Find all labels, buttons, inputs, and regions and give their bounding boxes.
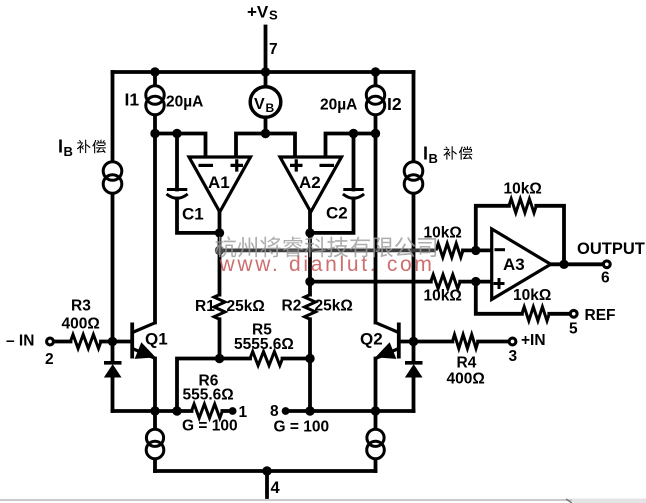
label pin 1 bbox=[239, 404, 248, 421]
wire right tail source leads bbox=[374, 411, 378, 471]
label R4 bbox=[457, 355, 477, 372]
label 10k REF bbox=[513, 287, 551, 304]
node R2 bottom R5 right bbox=[305, 354, 314, 363]
wire R2 bottom continues to bottom row bbox=[308, 319, 312, 411]
svg-text:A3: A3 bbox=[503, 255, 525, 274]
terminal REF pin 5 bbox=[570, 310, 577, 317]
label C1 bbox=[182, 205, 204, 224]
svg-text:REF: REF bbox=[585, 307, 616, 324]
wire C1 bottom lead to A1 output bbox=[177, 199, 220, 233]
wire Q2 emitter drop bbox=[374, 359, 378, 412]
svg-text:B: B bbox=[266, 101, 275, 115]
label 555.6 bbox=[183, 387, 234, 404]
voltage source VB bbox=[250, 87, 281, 118]
svg-text:555.6Ω: 555.6Ω bbox=[183, 387, 234, 404]
svg-text:1: 1 bbox=[239, 404, 248, 421]
wire A3 minus input right part bbox=[463, 248, 492, 252]
node VB bottom bbox=[261, 129, 270, 138]
node R1 bottom R5 left bbox=[215, 354, 224, 363]
terminal +IN pin 3 bbox=[509, 338, 516, 345]
label pin 6 bbox=[601, 270, 610, 287]
wire A3 feedback loop bbox=[476, 206, 564, 264]
current source IB compensation right bbox=[404, 162, 423, 194]
label R6 bbox=[199, 373, 219, 390]
wire Q2 collector riser bbox=[374, 134, 378, 323]
svg-text:Q1: Q1 bbox=[145, 330, 168, 349]
wire C1 top lead bbox=[175, 134, 179, 190]
wire A1 output drop bbox=[218, 212, 222, 295]
wire bottom row left segment bbox=[113, 409, 192, 413]
resistor 10k to A3 plus input bbox=[431, 275, 460, 289]
wire REF resistor to terminal bbox=[549, 312, 569, 316]
wire node row I2 to A2 minus corner bbox=[326, 134, 376, 158]
svg-text:V: V bbox=[254, 96, 265, 113]
label REF bbox=[585, 307, 616, 324]
node A3 minus input bbox=[471, 246, 480, 255]
svg-text:10kΩ: 10kΩ bbox=[504, 181, 542, 198]
wire VB node to A1 plus input bbox=[236, 134, 266, 158]
label 10k feedback bbox=[504, 181, 542, 198]
svg-text:25kΩ: 25kΩ bbox=[227, 298, 265, 315]
node C1 top bbox=[172, 129, 181, 138]
label 10k upper-left bbox=[424, 225, 462, 242]
node A3 plus input bbox=[471, 277, 480, 286]
svg-text:Q2: Q2 bbox=[360, 330, 383, 349]
label 20uA right bbox=[320, 97, 357, 114]
op-amp A2 bbox=[280, 157, 342, 212]
label R1 bbox=[195, 298, 215, 315]
svg-text:OUTPUT: OUTPUT bbox=[577, 240, 645, 258]
svg-text:7: 7 bbox=[269, 41, 278, 58]
node RG branch bottom bbox=[172, 406, 181, 415]
node A1 output to A3 wire (gray under watermark) bbox=[215, 246, 224, 255]
wire VB node to A2 plus input bbox=[266, 134, 296, 158]
label IB compensation left bbox=[58, 137, 106, 160]
label R5 bbox=[252, 322, 272, 339]
svg-text:A1: A1 bbox=[208, 173, 230, 192]
svg-text:8: 8 bbox=[270, 403, 279, 420]
wire bottom rail bbox=[155, 469, 376, 473]
label 10k lower-left bbox=[424, 288, 462, 305]
svg-text:20µA: 20µA bbox=[320, 97, 357, 114]
current source I1 20uA bbox=[146, 86, 164, 115]
label I2 bbox=[387, 94, 402, 114]
current source IB compensation left bbox=[103, 162, 122, 194]
label G=100 left bbox=[182, 418, 238, 435]
node C2 bottom at A2 output bbox=[305, 228, 314, 237]
svg-text:4: 4 bbox=[271, 479, 281, 497]
node Q2 emitter bottom bbox=[371, 406, 380, 415]
wire VB to node row bbox=[264, 118, 268, 134]
resistor R2 25k bbox=[305, 295, 316, 320]
wire right rail upper (to IB source) bbox=[412, 72, 416, 162]
node pin4 tap bbox=[262, 466, 271, 475]
capacitor C1 bbox=[167, 190, 188, 199]
svg-text:3: 3 bbox=[509, 348, 518, 365]
resistor 10k to A3 minus input bbox=[436, 243, 463, 257]
wire I1 drop from rail bbox=[153, 72, 157, 87]
diode right (Q2 base clamp) bbox=[405, 363, 423, 377]
svg-text:I: I bbox=[423, 144, 428, 164]
op-amp A1 bbox=[189, 157, 251, 212]
label C2 bbox=[326, 204, 348, 223]
transistor Q1 bbox=[132, 323, 155, 359]
current source I2 20uA bbox=[366, 86, 384, 115]
svg-text:G = 100: G = 100 bbox=[274, 419, 330, 436]
resistor 10k feedback A3 bbox=[509, 199, 536, 213]
svg-text:R2: R2 bbox=[282, 298, 302, 315]
wire left rail upper (to IB source) bbox=[111, 72, 115, 162]
svg-text:I2: I2 bbox=[387, 94, 402, 114]
label Q1 bbox=[145, 330, 168, 349]
svg-text:2: 2 bbox=[45, 351, 54, 368]
label 25k R2 bbox=[315, 298, 353, 315]
wire top supply rail bbox=[113, 70, 414, 74]
node C2 top bbox=[349, 129, 358, 138]
svg-text:5: 5 bbox=[569, 321, 578, 338]
label 5555.6 bbox=[234, 336, 294, 353]
diode left (Q1 base clamp) bbox=[104, 363, 122, 377]
svg-text:400Ω: 400Ω bbox=[447, 371, 485, 388]
label pin 7 bbox=[269, 41, 278, 58]
wire right rail lower (IB source to Q2 base node) bbox=[412, 193, 416, 342]
current source tail left bbox=[146, 429, 164, 459]
label G=100 right bbox=[274, 419, 330, 436]
svg-text:10kΩ: 10kΩ bbox=[424, 288, 462, 305]
svg-text:S: S bbox=[269, 8, 278, 23]
wire Q1 emitter drop bbox=[153, 359, 157, 412]
node top rail VB bbox=[261, 67, 270, 76]
wire left tail source leads bbox=[153, 411, 157, 471]
svg-text:C1: C1 bbox=[182, 205, 204, 224]
svg-text:B: B bbox=[429, 151, 438, 166]
node A2 output to A3 plus bbox=[305, 277, 314, 286]
svg-text:6: 6 bbox=[601, 270, 610, 287]
wire C2 top lead bbox=[352, 134, 356, 190]
resistor R1 25k bbox=[214, 295, 225, 320]
node A3 output bbox=[559, 260, 568, 269]
wire left diode leads bbox=[111, 342, 115, 412]
wire Q1 collector riser bbox=[153, 134, 157, 323]
label -IN bbox=[6, 333, 34, 350]
svg-text:A2: A2 bbox=[299, 173, 321, 192]
label Q2 bbox=[360, 330, 383, 349]
wire pin4 stub bbox=[265, 471, 269, 497]
svg-text:C2: C2 bbox=[326, 204, 348, 223]
node C1 bottom at A1 output bbox=[215, 228, 224, 237]
node R2 bottom row bbox=[305, 406, 314, 415]
label IB compensation right bbox=[423, 144, 472, 167]
wire right diode leads bbox=[412, 342, 416, 412]
svg-text:B: B bbox=[64, 144, 73, 159]
pin 1 terminal dot bbox=[229, 407, 237, 415]
svg-text:10kΩ: 10kΩ bbox=[513, 287, 551, 304]
label 400 R4 bbox=[447, 371, 485, 388]
transistor Q2 bbox=[376, 323, 399, 359]
wire R5 leads bbox=[220, 357, 311, 361]
wire A1 output to A3 minus input (under watermark, appears dark gray) bbox=[220, 248, 437, 252]
bottom page border line bbox=[0, 499, 646, 503]
svg-text:+IN: +IN bbox=[521, 332, 546, 349]
wire A2 output to A3 plus input bbox=[310, 280, 492, 284]
watermark company name bbox=[215, 236, 436, 257]
label OUTPUT bbox=[577, 240, 645, 258]
svg-text:I: I bbox=[58, 137, 63, 157]
terminal -IN pin 2 bbox=[47, 338, 54, 345]
wire -IN terminal to R3 bbox=[55, 340, 71, 344]
svg-text:– IN: – IN bbox=[6, 333, 34, 350]
node top rail I2 bbox=[371, 67, 380, 76]
label R3 bbox=[71, 298, 91, 315]
svg-text:+V: +V bbox=[247, 3, 269, 22]
node Q1 emitter bottom bbox=[150, 406, 159, 415]
wire pin8 to bottom row right segment bbox=[286, 409, 414, 413]
wire left rail lower (IB source to Q1 base node) bbox=[111, 193, 115, 342]
capacitor C2 bbox=[343, 190, 364, 199]
wire R5 left node to RG branch bbox=[177, 359, 220, 412]
wire Q2 base to rail node and R4 bbox=[401, 340, 509, 344]
svg-text:I1: I1 bbox=[125, 90, 140, 110]
wire R3 to base node bbox=[101, 340, 113, 344]
label pin 3 bbox=[509, 348, 518, 365]
svg-text:G = 100: G = 100 bbox=[182, 418, 238, 435]
wire A3 plus node to REF resistor bbox=[476, 282, 522, 314]
label pin 4 bbox=[271, 479, 281, 497]
wire R6 to pin1 stub bbox=[222, 409, 231, 413]
wire A3 output to terminal bbox=[551, 262, 602, 266]
resistor R5 5555.6ohm bbox=[250, 352, 283, 366]
current source tail right bbox=[367, 429, 385, 459]
wire R1 bottom to R5 left node bbox=[218, 319, 222, 358]
resistor R6 555.6ohm bbox=[192, 404, 223, 418]
label 400 R3 bbox=[62, 316, 100, 333]
label 20uA left bbox=[166, 94, 203, 111]
wire Q1 base from rail node bbox=[113, 340, 131, 344]
label +IN bbox=[521, 332, 546, 349]
wire I1 to node row bbox=[153, 114, 157, 133]
label I1 bbox=[125, 90, 140, 110]
svg-text:5555.6Ω: 5555.6Ω bbox=[234, 336, 294, 353]
resistor R3 400ohm bbox=[71, 335, 102, 349]
watermark url bbox=[219, 253, 435, 276]
label pin 2 bbox=[45, 351, 54, 368]
resistor R4 400ohm bbox=[452, 335, 478, 349]
terminal OUTPUT pin 6 bbox=[603, 261, 610, 268]
svg-text:R4: R4 bbox=[457, 355, 477, 372]
svg-text:25kΩ: 25kΩ bbox=[315, 298, 353, 315]
wire C2 bottom lead to A2 output bbox=[310, 199, 354, 233]
wire node row I1 to A1 minus corner bbox=[155, 134, 206, 158]
svg-text:R3: R3 bbox=[71, 298, 91, 315]
node I1 output bbox=[150, 129, 159, 138]
wire I2 to node row bbox=[374, 114, 378, 133]
node Q2 base rail bbox=[409, 337, 418, 346]
svg-text:R1: R1 bbox=[195, 298, 215, 315]
op-amp A3 bbox=[492, 229, 551, 300]
wire +Vs supply stub bbox=[264, 27, 268, 73]
label pin 8 bbox=[270, 403, 279, 420]
resistor 10k REF bbox=[522, 307, 549, 321]
svg-text:20µA: 20µA bbox=[166, 94, 203, 111]
svg-text:400Ω: 400Ω bbox=[62, 316, 100, 333]
node I2 output bbox=[371, 129, 380, 138]
label +VS bbox=[247, 3, 278, 23]
svg-text:www. dianlut. com: www. dianlut. com bbox=[219, 253, 435, 276]
label 25k R1 bbox=[227, 298, 265, 315]
node Q1 base rail bbox=[108, 337, 117, 346]
label R2 bbox=[282, 298, 302, 315]
node top rail I1 bbox=[150, 67, 159, 76]
wire VB drop from rail bbox=[264, 72, 268, 87]
wire I2 drop from rail bbox=[374, 72, 378, 87]
label pin 5 bbox=[569, 321, 578, 338]
wire A2 output drop bbox=[308, 212, 312, 295]
pin 8 terminal dot bbox=[282, 407, 290, 415]
